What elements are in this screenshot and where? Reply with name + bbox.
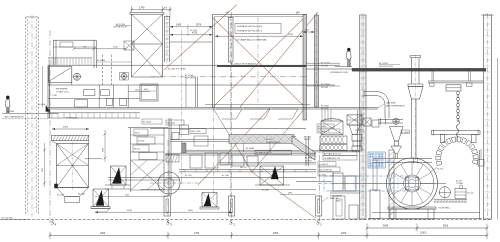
svg-text:(AIR COMPRESSOR): (AIR COMPRESSOR): [386, 104, 405, 107]
svg-text:1950: 1950: [273, 233, 279, 235]
svg-text:WELL: WELL: [336, 201, 341, 203]
svg-text:AT MAIN BOX 7.5t: AT MAIN BOX 7.5t: [256, 152, 272, 155]
svg-text:AT.PLATE BOX 1.5t: AT.PLATE BOX 1.5t: [324, 153, 341, 156]
svg-text:1815 | 1810: 1815 | 1810: [191, 131, 200, 133]
svg-text:4200: 4200: [341, 233, 347, 235]
svg-text:EL.12700: EL.12700: [185, 75, 193, 77]
svg-text:+050: +050: [225, 12, 229, 14]
svg-text:GL.MAIN BOX 2.5t: GL.MAIN BOX 2.5t: [324, 157, 340, 160]
svg-text:HB.12: HB.12: [135, 133, 140, 135]
svg-text:5300: 5300: [41, 168, 43, 172]
svg-text:EL.5150: EL.5150: [387, 161, 394, 163]
svg-text:1740: 1740: [139, 7, 145, 10]
svg-text:WD.COUPLING: WD.COUPLING: [319, 170, 332, 172]
svg-text:EL.5000: EL.5000: [7, 111, 14, 113]
svg-text:EL.8.0t: EL.8.0t: [438, 168, 444, 171]
svg-text:FLOOR: FLOOR: [321, 108, 329, 110]
svg-text:5130: 5130: [127, 210, 133, 212]
svg-text:S: S: [230, 221, 233, 227]
svg-text:EL.0.00 (FL): EL.0.00 (FL): [2, 217, 14, 219]
svg-text:EL.9600: EL.9600: [38, 104, 45, 106]
svg-text:GAS TUBE: GAS TUBE: [386, 101, 396, 104]
svg-text:EL.10300: EL.10300: [402, 132, 409, 134]
svg-text:EL.10800: EL.10800: [318, 126, 326, 128]
svg-text:EL.12700: EL.12700: [321, 63, 331, 65]
svg-text:2415: 2415: [144, 89, 148, 91]
svg-text:EL.7700: EL.7700: [304, 136, 311, 138]
svg-text:1750: 1750: [194, 233, 200, 235]
svg-text:2690: 2690: [288, 193, 292, 195]
svg-text:1400: 1400: [176, 25, 182, 27]
svg-text:1950: 1950: [101, 148, 103, 152]
svg-text:EL.13800 TOP OF BRIDGE: EL.13800 TOP OF BRIDGE: [231, 64, 256, 66]
svg-text:WD.210: WD.210: [134, 149, 140, 151]
svg-text:2145: 2145: [125, 194, 129, 196]
svg-text:(TOP OUT): (TOP OUT): [185, 78, 195, 80]
svg-text:EL.1350 TOP OF BR.: EL.1350 TOP OF BR.: [168, 68, 187, 70]
svg-text:11900: 11900: [420, 233, 427, 235]
svg-text:EL.6600 FL: EL.6600 FL: [319, 164, 328, 166]
svg-text:3810: 3810: [188, 210, 194, 212]
svg-text:EL.14200: EL.14200: [97, 60, 105, 62]
svg-text:EL.2800: EL.2800: [262, 190, 269, 192]
svg-text:5000: 5000: [443, 226, 449, 228]
svg-text:1.5t CRANE RAIL 2.5t CRAN: 1.5t CRANE RAIL 2.5t CRANE RAIL: [236, 39, 267, 42]
svg-text:ROOF FLOOR: ROOF FLOOR: [379, 66, 393, 68]
svg-text:EL.9600: EL.9600: [138, 141, 144, 143]
svg-text:(OPENING FLOOR): (OPENING FLOOR): [330, 72, 348, 74]
svg-text:WD.155: WD.155: [240, 167, 247, 169]
svg-text:S: S: [317, 221, 320, 227]
svg-text:EL.1791: EL.1791: [185, 175, 192, 177]
svg-text:5000: 5000: [383, 226, 389, 228]
svg-text:WP SE ROOF: WP SE ROOF: [114, 27, 128, 29]
svg-text:EL.5700: EL.5700: [57, 194, 64, 196]
svg-text:EL.9000: EL.9000: [321, 105, 330, 107]
svg-text:S: S: [51, 221, 54, 227]
svg-text:FLOOR: FLOOR: [305, 161, 312, 163]
svg-text:EL.9600: EL.9600: [305, 158, 312, 160]
svg-text:WP HEATER: WP HEATER: [56, 88, 68, 91]
svg-text:EL.11500: EL.11500: [143, 121, 151, 123]
svg-text:FURNACE WIDTH=7005.4: FURNACE WIDTH=7005.4: [237, 30, 263, 33]
svg-text:FLOW WELL: FLOW WELL: [439, 208, 452, 210]
svg-text:(LIGHTING BOX): (LIGHTING BOX): [266, 142, 281, 144]
svg-text:+050: +050: [296, 12, 300, 14]
svg-text:4700: 4700: [192, 33, 198, 35]
svg-text:2.130: 2.130: [52, 95, 57, 97]
svg-text:EL.1740: EL.1740: [190, 30, 197, 32]
svg-text:AIR COMPRESSOR: AIR COMPRESSOR: [5, 115, 25, 118]
svg-text:EL.1363: EL.1363: [78, 193, 85, 195]
svg-text:2.5 BHP 1200: 2.5 BHP 1200: [56, 92, 69, 94]
svg-text:TP WELL: TP WELL: [456, 183, 464, 185]
svg-text:2970: 2970: [196, 25, 202, 27]
svg-text:FURNACE DEPTH=7000.4: FURNACE DEPTH=7000.4: [237, 25, 263, 28]
svg-text:Z=473: Z=473: [266, 139, 271, 141]
svg-text:S: S: [167, 221, 170, 227]
svg-text:EL.200: EL.200: [468, 192, 474, 194]
svg-text:FLOOR: FLOOR: [321, 65, 329, 67]
svg-text:FLOOR: FLOOR: [304, 139, 311, 141]
svg-text:1800: 1800: [100, 233, 106, 235]
svg-text:FLOOR: FLOOR: [321, 87, 329, 89]
svg-text:BASIC WT.: BASIC WT.: [330, 197, 340, 200]
svg-text:EL.10300: EL.10300: [246, 148, 254, 150]
svg-text:EL.1740: EL.1740: [222, 175, 229, 177]
svg-text:4463: 4463: [63, 127, 69, 129]
